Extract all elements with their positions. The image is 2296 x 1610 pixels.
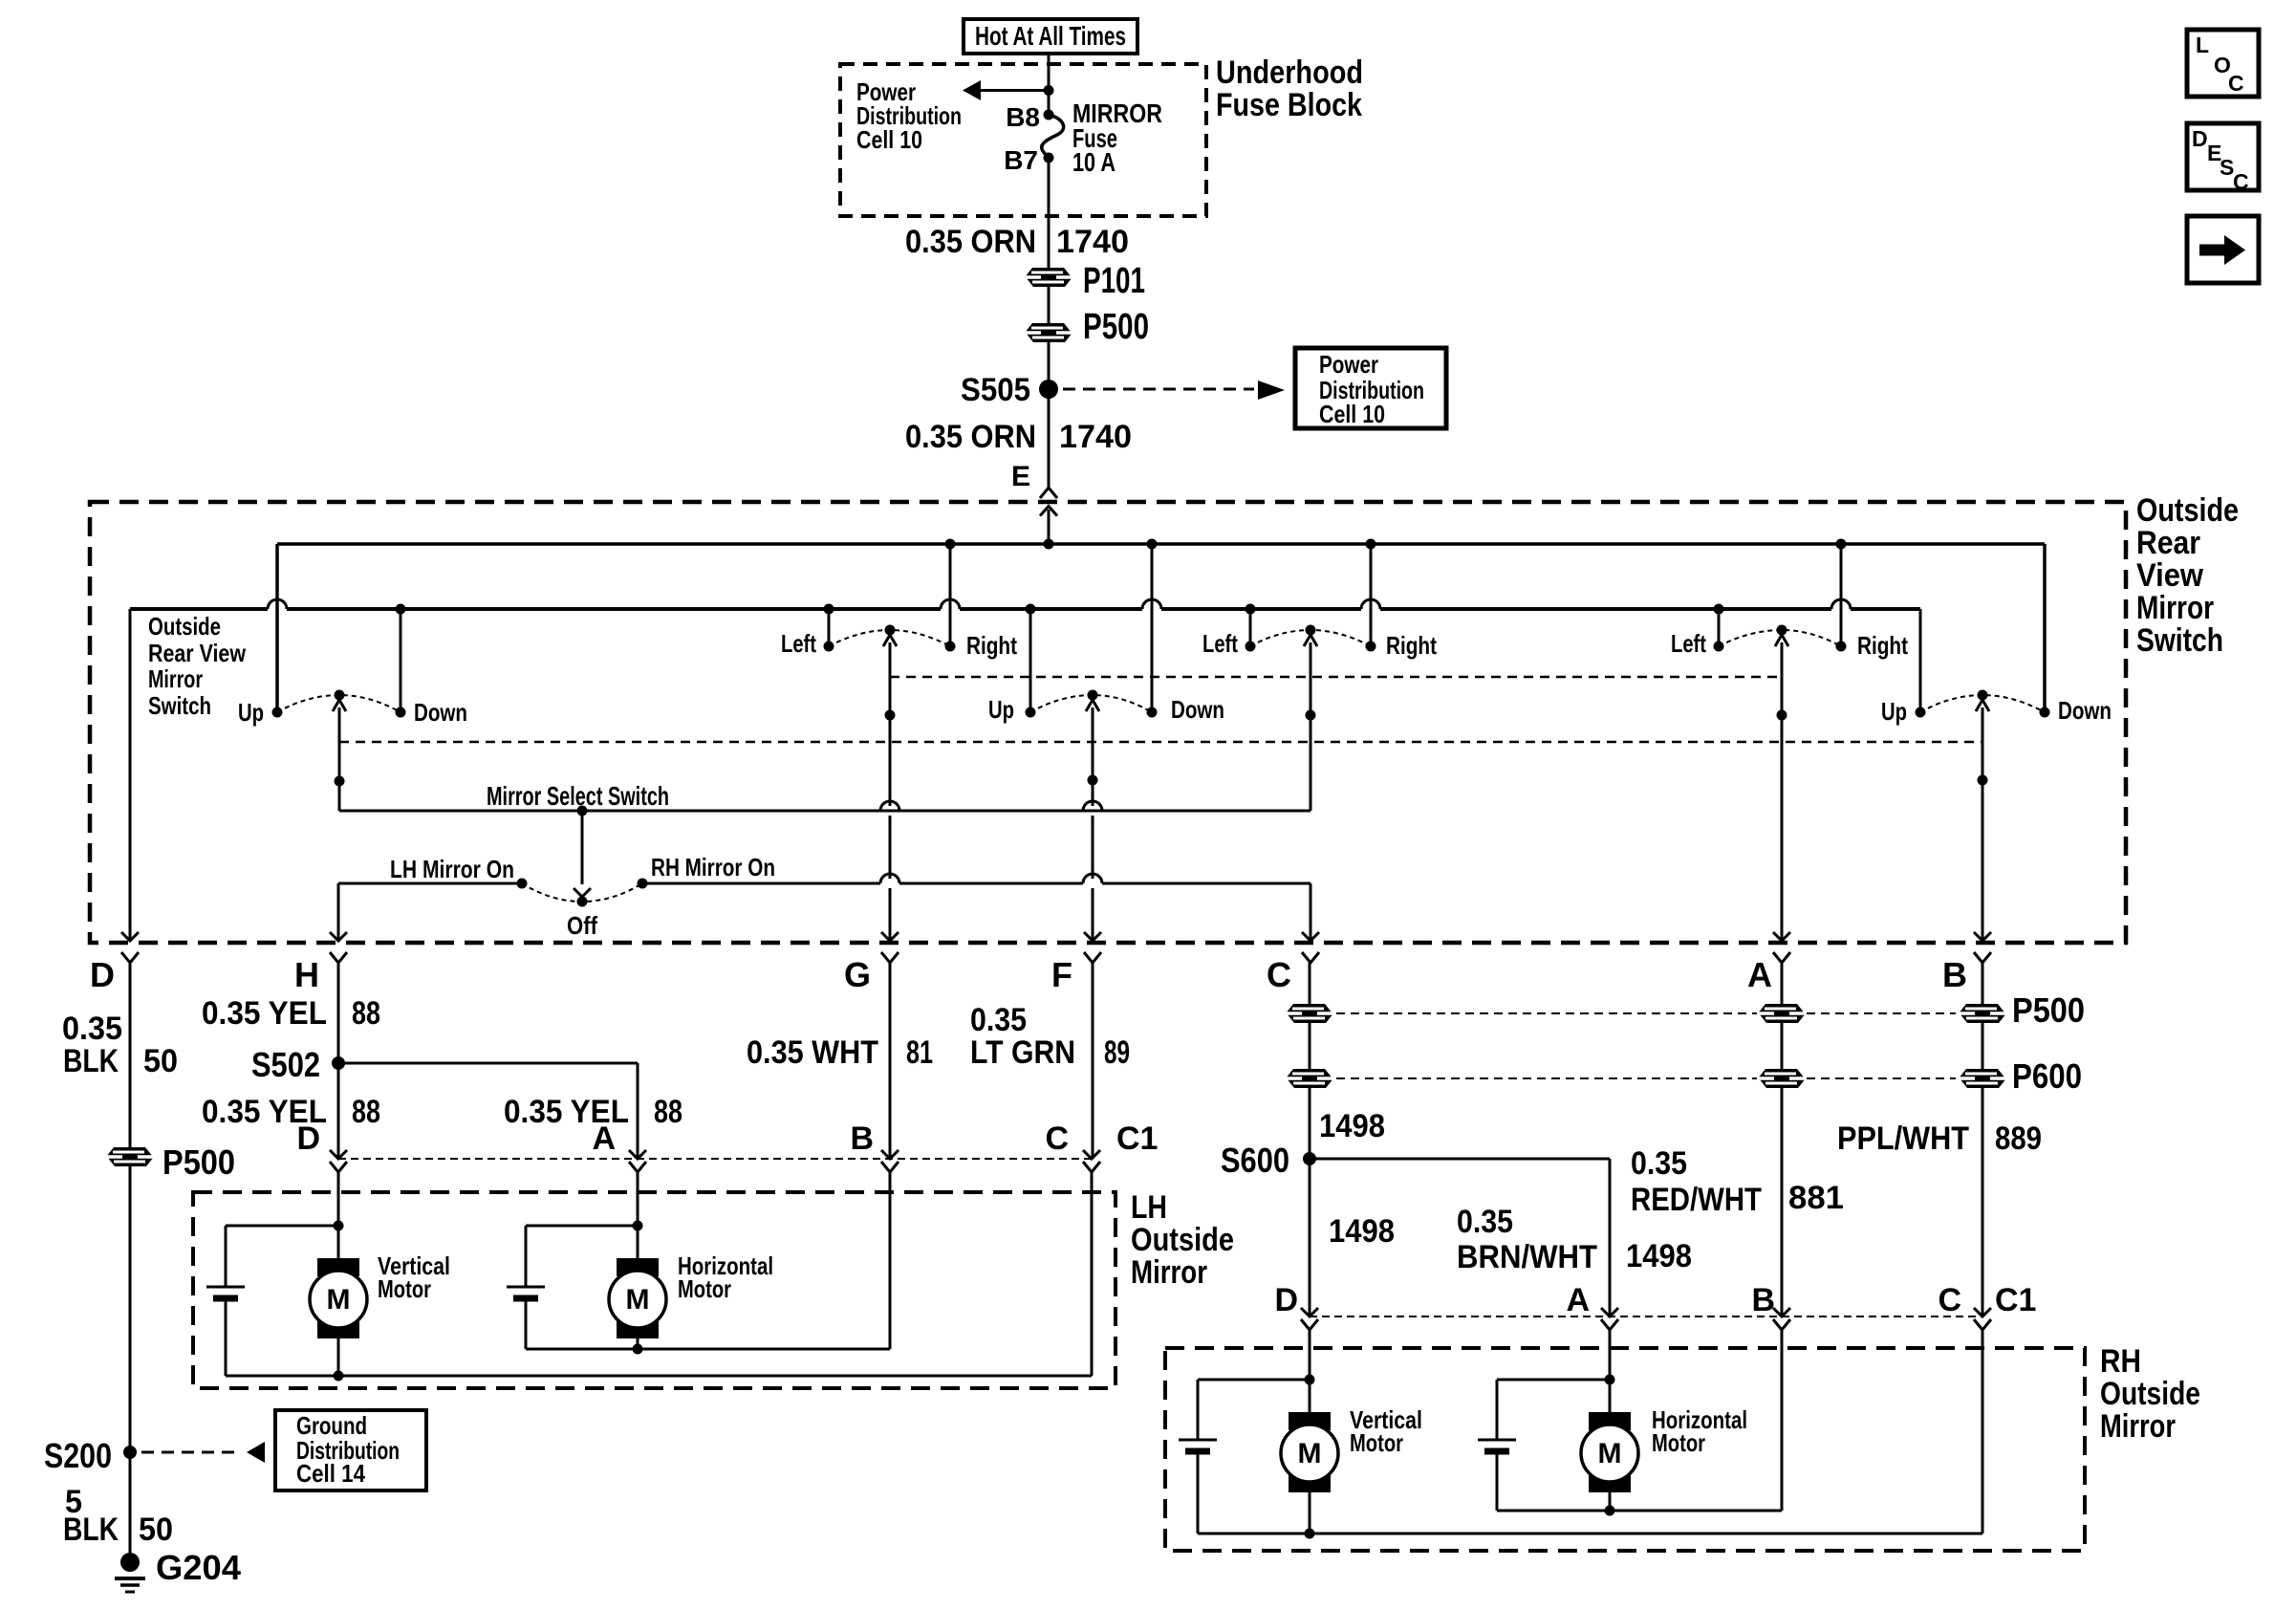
label Off bbox=[567, 911, 597, 940]
wire: A to RH B pin 0.35 RED/WHT 881 bbox=[1781, 963, 1784, 1316]
wire: battery to rail (RH vertical) bbox=[1197, 1454, 1200, 1534]
svg-text:1740: 1740 bbox=[1056, 224, 1129, 260]
wire: dashed reference to Power Distribution Cell 10 bbox=[1063, 381, 1285, 400]
switch contacts Left/Right group3 bbox=[1714, 625, 1847, 652]
label Horizontal Motor (RH) bbox=[1652, 1405, 1747, 1457]
svg-text:Outside: Outside bbox=[2100, 1376, 2200, 1412]
label Up (left) bbox=[238, 698, 264, 727]
pin D (switch) bbox=[90, 952, 139, 994]
label Outside Rear View Mirror Switch (inner) bbox=[148, 612, 247, 720]
svg-text:50: 50 bbox=[143, 1043, 178, 1079]
svg-text:B8: B8 bbox=[1006, 102, 1040, 132]
junctions on line2 bbox=[396, 604, 1724, 615]
svg-text:Mirror: Mirror bbox=[2100, 1408, 2176, 1445]
svg-text:C: C bbox=[2233, 169, 2249, 194]
underhood fuse block dashed box bbox=[840, 64, 1206, 216]
svg-text:C: C bbox=[1938, 1282, 1961, 1318]
wire: upper bus line1 bbox=[277, 542, 2045, 546]
svg-text:A: A bbox=[1566, 1282, 1590, 1318]
wire: LH horizontal motor battery branch bbox=[526, 1226, 638, 1287]
label Outside Rear View Mirror Switch (right) bbox=[2136, 492, 2239, 659]
switch contacts Left/Right group2 bbox=[1245, 625, 1376, 652]
wire: RH A pin to horizontal motor bbox=[1605, 1330, 1615, 1412]
wire: battery to bottom rail (LH vertical) bbox=[225, 1301, 227, 1376]
fuse MIRROR Fuse 10 A bbox=[1042, 115, 1064, 158]
label Down (right) bbox=[2058, 696, 2112, 725]
svg-text:88: 88 bbox=[352, 1094, 380, 1130]
svg-text:Cell 10: Cell 10 bbox=[1319, 400, 1385, 428]
wire: line1 to Right contact (group1) bbox=[949, 544, 952, 646]
wire: Hot feed into fuse block bbox=[1048, 54, 1051, 115]
label 0.35 ORN 1740 (upper) bbox=[905, 224, 1129, 260]
svg-text:Underhood: Underhood bbox=[1216, 54, 1363, 91]
pin F (switch) bbox=[1051, 952, 1101, 994]
svg-text:E: E bbox=[1011, 461, 1030, 492]
wire: line1 to Right contact (group2) bbox=[1370, 544, 1373, 646]
svg-text:Right: Right bbox=[966, 631, 1017, 660]
wire: S502 branch to A pin bbox=[338, 1063, 638, 1159]
wire: S200 to G204 5 BLK 50 bbox=[129, 1452, 132, 1556]
label 0.35 BLK 50 bbox=[62, 1011, 178, 1079]
wire: battery to rail (RH horizontal) bbox=[1496, 1454, 1499, 1511]
pin B7 bbox=[1004, 145, 1053, 175]
label Left (group3) bbox=[1671, 629, 1706, 658]
label Right (group2) bbox=[1386, 631, 1437, 660]
svg-text:Outside: Outside bbox=[2136, 492, 2239, 529]
svg-text:0.35 YEL: 0.35 YEL bbox=[202, 995, 327, 1032]
svg-text:889: 889 bbox=[1995, 1120, 2042, 1157]
label Right (group1) bbox=[966, 631, 1017, 660]
connector row LH mirror bbox=[338, 1158, 1092, 1160]
label Up (mid) bbox=[988, 695, 1014, 724]
switch contacts Left/Right group1 bbox=[824, 625, 956, 652]
svg-text:89: 89 bbox=[1104, 1034, 1130, 1071]
legend box LOC bbox=[2187, 30, 2259, 97]
wire: H pole drop bbox=[330, 883, 347, 941]
wire: dashed reference to Ground Distribution bbox=[141, 1442, 265, 1463]
label 0.35 YEL 88 (upper) bbox=[202, 995, 380, 1032]
connector P500 (B wire) bbox=[1959, 990, 2085, 1030]
svg-text:P500: P500 bbox=[162, 1142, 235, 1182]
pin B8 bbox=[1006, 102, 1053, 132]
label 0.35 YEL 88 (right) bbox=[504, 1094, 682, 1130]
switch contacts Up/Down group mid bbox=[1026, 690, 1158, 718]
label 0.35 LT GRN 89 bbox=[970, 1002, 1130, 1071]
svg-text:Up: Up bbox=[238, 698, 264, 727]
svg-text:Mirror: Mirror bbox=[2136, 590, 2214, 626]
label Left (group1) bbox=[781, 629, 816, 658]
svg-text:P600: P600 bbox=[2012, 1056, 2082, 1096]
wire: LH vertical motor battery branch bbox=[226, 1226, 338, 1287]
svg-text:Switch: Switch bbox=[148, 691, 211, 720]
svg-text:0.35: 0.35 bbox=[1457, 1204, 1513, 1240]
svg-text:RED/WHT: RED/WHT bbox=[1631, 1182, 1762, 1218]
wire: mid UD center pole to F output bbox=[1083, 707, 1102, 941]
splice S505 bbox=[961, 372, 1058, 408]
wire: S600 branch 0.35 BRN/WHT 1498 bbox=[1310, 1159, 1610, 1316]
svg-text:Motor: Motor bbox=[378, 1274, 431, 1303]
junctions on line1 bbox=[945, 539, 1847, 550]
svg-text:D: D bbox=[296, 1120, 320, 1157]
wire: LH vertical motor to rail bbox=[334, 1338, 344, 1382]
svg-text:Fuse Block: Fuse Block bbox=[1216, 87, 1362, 123]
svg-text:Hot At All Times: Hot At All Times bbox=[975, 21, 1126, 51]
wire: line2 end to Up contact (right group) bbox=[1919, 609, 1922, 712]
svg-text:S505: S505 bbox=[961, 372, 1030, 408]
label Mirror Select Switch bbox=[487, 781, 669, 811]
wire: S600 to RH D pin 1498 bbox=[1309, 1159, 1311, 1316]
wire: S502 to LH D pin bbox=[337, 1063, 340, 1159]
svg-text:M: M bbox=[1598, 1438, 1622, 1469]
svg-text:PPL/WHT: PPL/WHT bbox=[1837, 1120, 1969, 1157]
svg-text:RH: RH bbox=[2100, 1343, 2141, 1380]
wire: line2 to Left contact (group1) bbox=[828, 609, 831, 646]
legend box DESC bbox=[2187, 123, 2259, 194]
svg-text:D: D bbox=[2192, 126, 2208, 151]
svg-text:Power: Power bbox=[1319, 350, 1378, 379]
wire: battery to rail (LH horizontal) bbox=[525, 1301, 528, 1349]
svg-text:0.35: 0.35 bbox=[62, 1011, 122, 1047]
svg-text:88: 88 bbox=[352, 995, 380, 1032]
wire: G to LH B pin 0.35 WHT 81 bbox=[889, 963, 892, 1159]
svg-text:81: 81 bbox=[906, 1034, 933, 1071]
wire: line2 to Down contact (left group) bbox=[400, 609, 402, 712]
wire: left UD center to mirror select bbox=[335, 707, 345, 811]
svg-text:P500: P500 bbox=[2012, 990, 2085, 1030]
connector P101 bbox=[1025, 261, 1145, 301]
svg-text:Motor: Motor bbox=[1350, 1428, 1403, 1457]
connector P500 (RH bank) bbox=[1286, 1004, 1956, 1023]
wire: A-output center pole bbox=[1773, 642, 1790, 941]
svg-text:LH Mirror On: LH Mirror On bbox=[390, 855, 514, 883]
svg-text:F: F bbox=[1051, 955, 1072, 994]
wire: F to LH C pin 0.35 LT GRN 89 bbox=[1092, 963, 1094, 1159]
svg-text:Up: Up bbox=[1881, 697, 1907, 726]
svg-text:D: D bbox=[90, 955, 115, 994]
label box Ground Distribution Cell 14 bbox=[275, 1410, 426, 1490]
svg-text:H: H bbox=[294, 955, 319, 994]
svg-text:D: D bbox=[1274, 1282, 1298, 1318]
wire: RH horizontal motor battery branch bbox=[1497, 1380, 1610, 1440]
wire: RH B pin rail bbox=[1497, 1330, 1782, 1511]
pin D (LH mirror) bbox=[296, 1120, 347, 1172]
pin A (RH mirror) bbox=[1566, 1282, 1618, 1330]
svg-text:View: View bbox=[2136, 557, 2203, 594]
wire: D output drop bbox=[121, 609, 139, 941]
connector P500 (feed) bbox=[1025, 307, 1149, 347]
wire: RH vertical motor to rail bbox=[1305, 1491, 1315, 1539]
label 0.35 WHT 81 bbox=[747, 1034, 933, 1071]
label LH Outside Mirror bbox=[1131, 1189, 1234, 1291]
wire: lower bus line2 bbox=[130, 599, 1920, 609]
wire: C to S600 1498 bbox=[1309, 963, 1311, 1159]
motor LH Vertical Motor bbox=[310, 1258, 367, 1338]
svg-text:Down: Down bbox=[414, 698, 467, 727]
label LH Mirror On bbox=[390, 855, 514, 883]
svg-text:Cell 14: Cell 14 bbox=[296, 1459, 365, 1488]
splice S600 bbox=[1221, 1141, 1316, 1180]
wire: line2 to Left contact (group2) bbox=[1249, 609, 1252, 646]
battery (RH horizontal) bbox=[1478, 1440, 1516, 1451]
switch contact LH Mirror On bbox=[338, 879, 528, 889]
wire: B to RH C1 pin PPL/WHT 889 bbox=[1982, 963, 1984, 1316]
connector P500 (A wire) bbox=[1758, 1004, 1806, 1023]
wire: RH C1 pin rail bbox=[1198, 1330, 1982, 1534]
switch contacts Up/Down group right bbox=[1916, 690, 2050, 718]
label PPL/WHT 889 bbox=[1837, 1120, 2042, 1157]
pin C (LH mirror) bbox=[1045, 1120, 1100, 1172]
svg-text:Down: Down bbox=[1171, 695, 1224, 724]
splice S502 bbox=[251, 1045, 345, 1084]
svg-text:M: M bbox=[626, 1284, 650, 1316]
svg-text:P500: P500 bbox=[1083, 307, 1149, 347]
connector P600 (A wire) bbox=[1758, 1069, 1806, 1088]
label Horizontal Motor (LH) bbox=[678, 1251, 773, 1303]
switch contacts Up/Down group left bbox=[272, 690, 406, 718]
wire: mirror select actuator arrow bbox=[574, 811, 591, 897]
svg-text:Motor: Motor bbox=[678, 1274, 731, 1303]
svg-text:50: 50 bbox=[139, 1512, 173, 1548]
label box Power Distribution Cell 10 bbox=[1295, 348, 1446, 428]
battery (LH horizontal) bbox=[507, 1287, 545, 1298]
pin C1 (RH mirror) bbox=[1995, 1282, 2036, 1318]
connector row RH mirror bbox=[1310, 1316, 1982, 1317]
LH outside mirror dashed box bbox=[193, 1192, 1116, 1388]
svg-text:B: B bbox=[850, 1120, 874, 1157]
mech link rail upper bbox=[890, 676, 1782, 679]
svg-text:L: L bbox=[2196, 33, 2209, 57]
label 1498 (upper) bbox=[1319, 1108, 1385, 1144]
wire: LH A pin to horizontal motor bbox=[633, 1172, 643, 1258]
svg-text:RH Mirror On: RH Mirror On bbox=[651, 853, 775, 881]
label Right (group3) bbox=[1857, 631, 1908, 660]
label Vertical Motor (RH) bbox=[1350, 1405, 1422, 1457]
wire: line1 to Up contact (left group) bbox=[275, 544, 279, 712]
svg-text:S502: S502 bbox=[251, 1045, 320, 1084]
svg-text:Outside: Outside bbox=[1131, 1222, 1234, 1258]
svg-text:BLK: BLK bbox=[63, 1043, 119, 1079]
svg-text:Right: Right bbox=[1386, 631, 1437, 660]
wire: S505 to switch pin E 0.35 ORN 1740 bbox=[1048, 373, 1051, 488]
svg-text:0.35: 0.35 bbox=[1631, 1145, 1687, 1182]
svg-text:Left: Left bbox=[781, 629, 816, 658]
svg-text:C1: C1 bbox=[1995, 1282, 2036, 1318]
svg-text:Rear: Rear bbox=[2136, 525, 2200, 561]
wire: H to S502 0.35 YEL 88 bbox=[337, 963, 340, 1063]
svg-text:Mirror: Mirror bbox=[148, 664, 203, 693]
wire: LH B pin rail bbox=[526, 1172, 890, 1349]
svg-text:BLK: BLK bbox=[63, 1512, 119, 1548]
svg-text:Switch: Switch bbox=[2136, 622, 2223, 659]
label Down (mid) bbox=[1171, 695, 1224, 724]
pin B (LH mirror) bbox=[850, 1120, 899, 1172]
label Power Distribution Cell 10 (fuse block) bbox=[856, 77, 962, 154]
switch contact RH Mirror On bbox=[638, 879, 1311, 889]
label MIRROR Fuse 10 A bbox=[1072, 98, 1162, 177]
svg-text:Left: Left bbox=[1202, 629, 1238, 658]
svg-text:B: B bbox=[1942, 955, 1967, 994]
outside rear view mirror switch dashed box bbox=[90, 502, 2126, 943]
svg-text:Rear View: Rear View bbox=[148, 639, 247, 667]
label 0.35 YEL 88 (left) bbox=[202, 1094, 380, 1130]
svg-text:1498: 1498 bbox=[1319, 1108, 1385, 1144]
pin A (LH mirror) bbox=[592, 1120, 646, 1172]
label Up (right) bbox=[1881, 697, 1907, 726]
wire: RH vertical motor battery branch bbox=[1198, 1380, 1310, 1440]
pin B (switch) bbox=[1942, 952, 1991, 994]
svg-text:G: G bbox=[844, 955, 871, 994]
wire: RH-on pole drop to C output bbox=[1302, 883, 1319, 941]
svg-text:C: C bbox=[1045, 1120, 1069, 1157]
svg-text:Outside: Outside bbox=[148, 612, 221, 641]
wire: right UD center pole to B output bbox=[1974, 707, 1991, 941]
splice S200 bbox=[44, 1436, 137, 1475]
svg-text:A: A bbox=[1747, 955, 1772, 994]
svg-text:LH: LH bbox=[1131, 1189, 1167, 1226]
connector P500 (BLK) bbox=[106, 1142, 235, 1182]
svg-text:881: 881 bbox=[1788, 1180, 1844, 1216]
svg-text:0.35 WHT: 0.35 WHT bbox=[747, 1034, 878, 1071]
wire: D to S200 0.35 BLK 50 bbox=[129, 963, 132, 1452]
wire: G center pole to G output bbox=[880, 642, 899, 941]
svg-text:B: B bbox=[1751, 1282, 1775, 1318]
wire: mirror select bar bbox=[339, 806, 1310, 816]
pin C (switch) bbox=[1267, 952, 1319, 994]
svg-text:Left: Left bbox=[1671, 629, 1706, 658]
pin D (RH mirror) bbox=[1274, 1282, 1318, 1330]
svg-text:A: A bbox=[592, 1120, 616, 1157]
label 0.35 BRN/WHT 1498 bbox=[1457, 1204, 1692, 1275]
wire: line2 to Left contact (group3) bbox=[1718, 609, 1721, 646]
svg-text:Motor: Motor bbox=[1652, 1428, 1705, 1457]
wire: line1 end to Down contact (right group) bbox=[2043, 544, 2047, 712]
pin C (RH mirror) bbox=[1938, 1282, 1991, 1330]
svg-text:G204: G204 bbox=[156, 1548, 241, 1587]
connector P600 (RH bank) bbox=[1286, 1069, 1956, 1088]
wire: B7 to P101 0.35 ORN 1740 bbox=[1048, 158, 1051, 373]
wire: line1 to Down contact (mid group) bbox=[1151, 544, 1154, 712]
wire: line2 to Up contact (mid group) bbox=[1029, 609, 1032, 712]
pin A (switch) bbox=[1747, 952, 1790, 994]
svg-text:1498: 1498 bbox=[1329, 1213, 1395, 1250]
svg-text:P101: P101 bbox=[1083, 261, 1145, 301]
wire: E entry arrow into switch bbox=[1040, 507, 1057, 545]
pin H (switch) bbox=[294, 952, 347, 994]
svg-text:Mirror Select Switch: Mirror Select Switch bbox=[487, 781, 669, 811]
wire: line1 to Right contact (group3) bbox=[1840, 544, 1843, 646]
label Vertical Motor (LH) bbox=[378, 1251, 450, 1303]
legend box arrow bbox=[2187, 216, 2259, 283]
mech link rail lower bbox=[339, 741, 1982, 744]
switch mirror select Off contact bbox=[522, 883, 642, 907]
svg-text:Off: Off bbox=[567, 911, 597, 940]
svg-text:Cell 10: Cell 10 bbox=[856, 125, 922, 154]
svg-text:0.35: 0.35 bbox=[970, 1002, 1027, 1038]
svg-text:C: C bbox=[2228, 71, 2244, 96]
svg-text:B7: B7 bbox=[1004, 145, 1038, 175]
wire: arrow to Power Distribution bbox=[963, 80, 1049, 100]
motor RH Horizontal Motor bbox=[1581, 1412, 1638, 1492]
svg-text:M: M bbox=[1298, 1438, 1322, 1469]
node junction at feed bbox=[1044, 85, 1054, 96]
svg-text:88: 88 bbox=[654, 1094, 682, 1130]
svg-text:1498: 1498 bbox=[1626, 1238, 1692, 1274]
RH outside mirror dashed box bbox=[1165, 1348, 2085, 1551]
label RH Outside Mirror bbox=[2100, 1343, 2200, 1445]
pin E bbox=[1011, 461, 1057, 498]
label Underhood Fuse Block bbox=[1216, 54, 1363, 123]
ground G204 bbox=[115, 1548, 241, 1592]
svg-text:Mirror: Mirror bbox=[1131, 1254, 1207, 1291]
svg-text:10 A: 10 A bbox=[1072, 147, 1116, 177]
battery (LH vertical) bbox=[206, 1287, 245, 1298]
svg-text:M: M bbox=[327, 1284, 351, 1316]
svg-text:Right: Right bbox=[1857, 631, 1908, 660]
svg-text:BRN/WHT: BRN/WHT bbox=[1457, 1239, 1597, 1275]
label 0.35 ORN 1740 (lower) bbox=[905, 419, 1132, 455]
wire: LH C1 pin rail bbox=[226, 1172, 1092, 1376]
pin B (RH mirror) bbox=[1751, 1282, 1790, 1330]
label RH Mirror On bbox=[651, 853, 775, 881]
svg-text:0.35 ORN: 0.35 ORN bbox=[905, 419, 1036, 455]
svg-text:S600: S600 bbox=[1221, 1141, 1289, 1180]
wire: RH horizontal motor to rail bbox=[1605, 1491, 1615, 1516]
svg-text:C1: C1 bbox=[1116, 1120, 1158, 1157]
wire: mirror select pole riser bbox=[1306, 642, 1316, 811]
pin C1 (LH mirror) bbox=[1116, 1120, 1158, 1157]
label box Hot At All Times bbox=[964, 19, 1137, 54]
svg-text:Up: Up bbox=[988, 695, 1014, 724]
svg-text:C: C bbox=[1267, 955, 1291, 994]
motor LH Horizontal Motor bbox=[609, 1258, 666, 1338]
svg-text:0.35 ORN: 0.35 ORN bbox=[905, 224, 1036, 260]
label 0.35 RED/WHT 881 bbox=[1631, 1145, 1844, 1218]
svg-text:S200: S200 bbox=[44, 1436, 112, 1475]
label 1498 (lower) bbox=[1329, 1213, 1395, 1250]
label 5 BLK 50 bbox=[63, 1484, 173, 1548]
wire: RH D pin to vertical motor bbox=[1305, 1330, 1315, 1412]
wire: LH D pin to vertical motor bbox=[334, 1172, 344, 1258]
connector P600 (B wire) bbox=[1959, 1056, 2082, 1096]
svg-text:Down: Down bbox=[2058, 696, 2112, 725]
svg-text:1740: 1740 bbox=[1059, 419, 1132, 455]
wire: LH horizontal motor to rail bbox=[633, 1338, 643, 1355]
motor RH Vertical Motor bbox=[1281, 1412, 1338, 1492]
pin G (switch) bbox=[844, 952, 899, 994]
label Left (group2) bbox=[1202, 629, 1238, 658]
label Down (left) bbox=[414, 698, 467, 727]
battery (RH vertical) bbox=[1179, 1440, 1217, 1451]
svg-text:LT GRN: LT GRN bbox=[970, 1034, 1075, 1071]
